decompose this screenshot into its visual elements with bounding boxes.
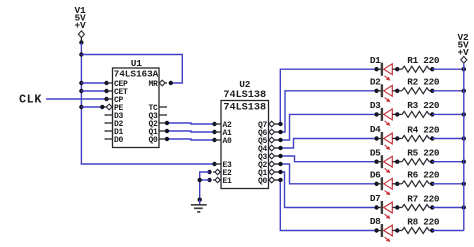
- op-amp U2 74LS138 decoder: [207, 79, 281, 189]
- LED D6: [374, 177, 399, 195]
- wire Q5 to D3: [278, 114, 376, 142]
- resistor R3 220: [397, 111, 434, 117]
- svg-text:D2: D2: [370, 77, 381, 88]
- svg-text:R6 220: R6 220: [407, 170, 440, 181]
- svg-text:R7 220: R7 220: [407, 193, 440, 204]
- wire +V bus from V1 to U1 enables and U2 E3: [81, 43, 214, 165]
- label R1 220: [407, 55, 440, 66]
- svg-text:E1: E1: [223, 177, 233, 186]
- svg-text:D5: D5: [370, 147, 381, 158]
- wire Q1 to D7: [278, 170, 376, 208]
- label D4: [370, 124, 381, 135]
- label R4 220: [407, 124, 440, 135]
- resistor R1 220: [397, 66, 434, 72]
- wire R4 to +V rail: [432, 138, 464, 140]
- wire Q3 to D5: [278, 154, 376, 162]
- wire Q6 to D2: [278, 91, 376, 134]
- wire R6 to +V rail: [432, 183, 464, 185]
- wire R2 to +V rail: [432, 90, 464, 92]
- node rail junction row 5: [462, 160, 466, 164]
- svg-text:R3 220: R3 220: [407, 100, 440, 111]
- svg-text:74LS138: 74LS138: [223, 90, 266, 101]
- svg-text:D4: D4: [370, 124, 381, 135]
- svg-text:Q0: Q0: [148, 136, 158, 145]
- wire R5 to +V rail: [432, 161, 464, 163]
- LED D7: [374, 201, 399, 219]
- svg-text:A0: A0: [223, 137, 233, 146]
- LED D2: [374, 84, 399, 102]
- label R2 220: [407, 77, 440, 88]
- label D1: [370, 55, 381, 66]
- node junction bus-MR loop: [79, 52, 83, 56]
- resistor R6 220: [397, 181, 434, 187]
- node rail junction row 4: [462, 136, 466, 140]
- node rail junction row 3: [462, 112, 466, 116]
- svg-text:R1 220: R1 220: [407, 55, 440, 66]
- wire E2 E1 to ground: [198, 172, 210, 202]
- node rail junction row 1: [462, 67, 466, 71]
- svg-text:D7: D7: [370, 193, 381, 204]
- wire Q2 to D6: [278, 162, 376, 184]
- node CLK input label: [19, 92, 42, 106]
- power source V1 +V 5V: [74, 5, 86, 45]
- wire Q0 to A0: [165, 137, 217, 142]
- svg-text:U2: U2: [239, 79, 251, 90]
- ground: [191, 200, 207, 212]
- label R5 220: [407, 148, 440, 159]
- svg-text:CLK: CLK: [19, 92, 42, 106]
- node junction bus-PE: [79, 105, 83, 109]
- LED D1: [374, 63, 399, 81]
- label D7: [370, 193, 381, 204]
- svg-text:R4 220: R4 220: [407, 124, 440, 135]
- svg-text:74LS163A: 74LS163A: [114, 68, 159, 79]
- node rail junction row 6: [462, 182, 466, 186]
- node rail junction row 2: [462, 89, 466, 93]
- label R6 220: [407, 170, 440, 181]
- wire MR tied to +V loop over U1: [81, 55, 182, 86]
- wire bus to CET pin: [81, 89, 108, 93]
- node rail junction row 7: [462, 205, 466, 209]
- LED D4: [374, 132, 399, 150]
- label D8: [370, 216, 381, 227]
- node E3 pin connection: [212, 162, 216, 166]
- svg-text:D0: D0: [114, 136, 124, 145]
- label R7 220: [407, 193, 440, 204]
- label D6: [370, 170, 381, 181]
- svg-text:74LS138: 74LS138: [223, 102, 266, 113]
- svg-text:D8: D8: [370, 216, 381, 227]
- svg-text:D1: D1: [370, 55, 381, 66]
- svg-text:MR: MR: [148, 80, 158, 89]
- svg-text:+V: +V: [74, 20, 86, 31]
- wire Q0 to D8: [278, 178, 376, 231]
- wire Q2 to A2: [165, 121, 217, 126]
- LED D8: [374, 224, 399, 242]
- label R8 220: [407, 216, 440, 227]
- wire R3 to +V rail: [432, 113, 464, 115]
- node junction bus-CEP: [79, 81, 83, 85]
- label D5: [370, 147, 381, 158]
- LED D5: [374, 155, 399, 173]
- svg-text:R5 220: R5 220: [407, 148, 440, 159]
- resistor R2 220: [397, 88, 434, 94]
- svg-text:Q0: Q0: [258, 177, 268, 186]
- label D3: [370, 100, 381, 111]
- op-amp U1 74LS163A counter: [105, 58, 168, 148]
- LED D3: [374, 108, 399, 126]
- resistor R5 220: [397, 159, 434, 165]
- svg-text:R8 220: R8 220: [407, 216, 440, 227]
- wire R7 to +V rail: [432, 207, 464, 209]
- label D2: [370, 77, 381, 88]
- svg-text:R2 220: R2 220: [407, 77, 440, 88]
- node junction bus-CET: [79, 89, 83, 93]
- wire R1 to +V rail: [432, 68, 464, 70]
- wire R8 to +V rail: [432, 230, 464, 232]
- wire Q4 to D4: [278, 139, 376, 151]
- wire CLK to CP pin: [46, 97, 109, 101]
- label R3 220: [407, 100, 440, 111]
- wire +V rail: [463, 63, 465, 230]
- wire bus to PE pin: [81, 105, 104, 109]
- svg-text:D3: D3: [370, 100, 381, 111]
- power source V2 +V 5V: [457, 32, 469, 63]
- wire Q1 to A1: [165, 129, 217, 134]
- resistor R8 220: [397, 228, 434, 234]
- resistor R7 220: [397, 205, 434, 211]
- wire Q7 to D1: [278, 69, 376, 126]
- resistor R4 220: [397, 136, 434, 142]
- wire bus to CEP pin: [81, 81, 108, 85]
- svg-text:D6: D6: [370, 170, 381, 181]
